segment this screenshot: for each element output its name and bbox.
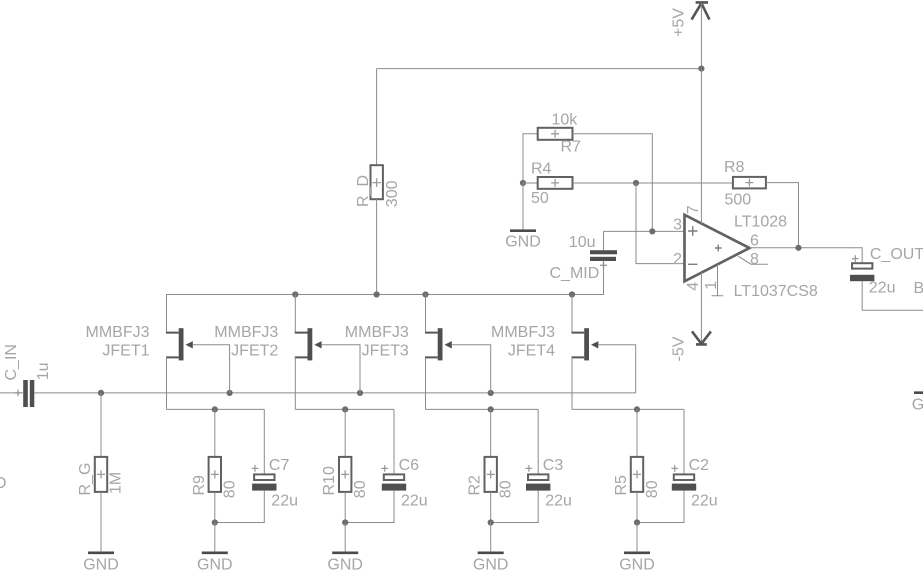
wire C_OUT bottom out [862,281,923,310]
svg-text:GND: GND [505,233,541,250]
wire GND drop under R4 [522,183,524,229]
node rail JFET3 [422,291,428,297]
wire C6 top [393,409,395,474]
svg-text:C7: C7 [269,457,290,474]
ground R2 [473,553,509,574]
svg-text:JFET4: JFET4 [508,343,555,360]
svg-text:MMBFJ3: MMBFJ3 [345,324,409,341]
node R9 tap [212,406,218,412]
node input gate1 [227,390,233,396]
node R10 tap [342,406,348,412]
capacitor C2 22u [671,457,717,509]
resistor R5 80 [613,457,661,498]
svg-text:C_MID: C_MID [550,265,600,282]
wire source4 [571,357,573,409]
resistor R2 80 [467,457,515,498]
node input gate3 [488,390,494,396]
svg-text:R2: R2 [467,475,484,496]
node input gate2 [357,390,363,396]
node rail JFET2 [292,291,298,297]
svg-text:22u: 22u [401,492,428,509]
pin 7 wire [700,69,702,224]
transistor Q3 MMBFJ3 JFET3 [345,295,452,361]
ground R5 [619,553,655,574]
wire R10 bottom [344,492,346,523]
wire R8 right to output node [766,183,799,248]
wire source3 [425,357,427,409]
wire R10 top [344,409,346,457]
ground R_G [83,553,119,574]
wire +5V vertical to junction [700,3,702,69]
svg-text:500: 500 [725,191,752,208]
wire R2 bottom [490,492,492,523]
capacitor C7 22u [252,457,298,509]
svg-text:6: 6 [750,233,759,250]
wire input bus [34,392,635,394]
wire C7 bottom [215,491,264,523]
svg-text:-5V: -5V [671,336,688,361]
svg-text:10k: 10k [552,111,579,128]
wire R_G top [100,393,102,457]
svg-text:GND: GND [912,397,923,414]
wire C6 bottom [345,491,394,523]
svg-text:LT1028: LT1028 [734,214,787,231]
svg-text:7: 7 [685,205,702,214]
wire source bus R10 [295,408,394,410]
svg-text:GND: GND [327,557,363,574]
transistor Q4 MMBFJ3 JFET4 [491,295,598,361]
wire R7 right to pin3 node [573,134,653,232]
svg-text:R5: R5 [613,475,630,496]
wire R7 left [523,134,538,183]
node R10 bottom junction [342,519,348,525]
wire R4 right to R8 left [573,182,733,184]
capacitor C6 22u [381,457,427,509]
svg-text:10u: 10u [569,234,596,251]
svg-text:50: 50 [531,190,549,207]
svg-text:C6: C6 [399,457,420,474]
node R2 tap [488,406,494,412]
node +5V junction [698,66,704,72]
resistor R4 50 [531,160,573,207]
wire R_G bottom [100,492,102,552]
svg-text:GND: GND [619,557,655,574]
node R2 bottom junction [488,519,494,525]
svg-text:C_IN: C_IN [3,344,20,380]
wire R4 left stub [523,182,538,184]
wire source2 [294,357,296,409]
wire R9 bottom [214,492,216,523]
resistor R7 10k [538,111,581,155]
wire C2 top [683,409,685,474]
ground under R4 [505,231,541,251]
wire C_MID top [603,231,605,250]
wire pin2 route [636,183,685,264]
node R5 tap [634,406,640,412]
resistor R_G 1M [77,457,124,496]
wire GND drop R10 [344,523,346,552]
capacitor C_OUT 22u [850,246,923,296]
svg-text:R10: R10 [321,466,338,495]
node R5 bottom junction [634,519,640,525]
ground right edge (clipped) [912,393,923,414]
node R9 bottom junction [212,519,218,525]
pin 4 wire [700,273,702,345]
svg-text:GND: GND [83,557,119,574]
wire R2 top [490,409,492,457]
wire R5 top [636,409,638,457]
resistor R_D 300 [355,165,401,207]
wire gate2 [322,345,360,393]
supply -5V [671,331,711,361]
wire source bus R9 [167,408,265,410]
transistor Q1 MMBFJ3 JFET1 [86,324,193,360]
wire C7 top [263,409,265,474]
wire R_D top [376,69,378,166]
wire output pin6 [750,248,863,263]
svg-text:JFET2: JFET2 [231,343,278,360]
wire top horizontal rail [377,68,702,70]
wire input left [0,392,23,394]
wire drain rail [167,261,604,333]
node input R_G [98,390,104,396]
svg-text:3: 3 [673,217,682,234]
svg-text:R_G: R_G [77,463,94,496]
pin 8 leader [738,256,768,264]
svg-text:80: 80 [498,480,515,498]
svg-text:MMBFJ3: MMBFJ3 [86,324,150,341]
svg-text:R_D: R_D [355,175,372,207]
wire source bus R5 [572,408,684,410]
svg-text:R8: R8 [724,159,745,176]
ground R9 [197,553,233,574]
svg-text:2: 2 [673,251,682,268]
wire R5 bottom [636,492,638,523]
wire R9 top [214,409,216,457]
wire GND drop R9 [214,523,216,552]
wire C3 bottom [491,491,539,523]
ground R10 [327,553,363,574]
svg-text:80: 80 [644,480,661,498]
svg-text:+5V: +5V [671,8,688,37]
svg-text:22u: 22u [271,492,298,509]
svg-text:C3: C3 [543,457,564,474]
svg-text:JFET3: JFET3 [362,343,409,360]
svg-text:1u: 1u [35,363,52,381]
node R4/R8/pin2 junction [633,180,639,186]
capacitor C_MID 10u [550,234,618,282]
pin 1 stub [712,264,724,295]
svg-text:R4: R4 [531,160,552,177]
wire GND drop R2 [490,523,492,552]
svg-text:JFET1: JFET1 [102,343,149,360]
transistor Q2 MMBFJ3 JFET2 [214,295,321,361]
resistor R9 80 [191,457,239,498]
wire R_D bottom to drain rail [376,199,378,294]
wire C_MID bottom to drain rail [603,261,605,295]
op-amp U1 LT1028 [673,205,818,300]
node rail R_D [374,291,380,297]
wire GND drop R5 [636,523,638,552]
resistor R10 80 [321,457,369,498]
svg-text:MMBFJ3: MMBFJ3 [214,324,278,341]
svg-text:MMBFJ3: MMBFJ3 [491,324,555,341]
svg-text:1M: 1M [107,472,124,494]
svg-text:C2: C2 [689,457,710,474]
wire source1 [166,357,168,409]
node R4 left junction [520,180,526,186]
svg-text:GND: GND [473,557,509,574]
svg-text:22u: 22u [691,492,718,509]
svg-text:C_OUT: C_OUT [870,246,923,263]
svg-text:O: O [0,475,7,492]
wire C3 top [537,409,539,474]
svg-text:300: 300 [384,180,401,207]
node pin3/R7 junction [649,228,655,234]
resistor R8 500 [724,159,766,209]
svg-text:R9: R9 [191,475,208,496]
svg-text:B: B [914,280,923,297]
capacitor C_IN 1u [3,344,52,407]
capacitor C3 22u [526,457,572,509]
wire pin3 horizontal [604,230,685,232]
svg-text:LT1037CS8: LT1037CS8 [734,283,818,300]
svg-text:80: 80 [352,480,369,498]
svg-text:8: 8 [750,251,759,268]
svg-text:22u: 22u [869,280,896,297]
wire gate1 [193,345,230,393]
svg-text:GND: GND [197,557,233,574]
svg-text:R7: R7 [561,138,582,155]
node output junction [795,245,801,251]
svg-text:4: 4 [685,282,702,291]
wire C2 bottom [637,491,684,523]
svg-text:22u: 22u [545,492,572,509]
wire source bus R2 [426,408,539,410]
wire gate3 [452,345,491,393]
svg-text:80: 80 [222,480,239,498]
node rail JFET4 [569,291,575,297]
supply +5V [671,2,710,37]
wire gate4 [598,345,635,393]
